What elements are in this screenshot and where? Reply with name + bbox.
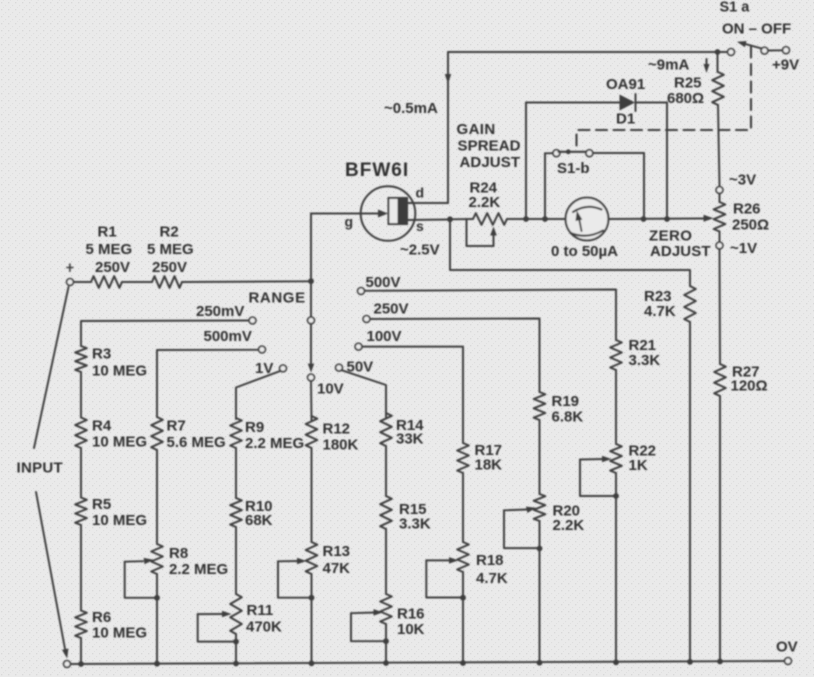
svg-text:~0.5mA: ~0.5mA bbox=[384, 100, 438, 117]
svg-text:R4: R4 bbox=[92, 418, 112, 435]
svg-text:250V: 250V bbox=[374, 301, 409, 318]
svg-text:50V: 50V bbox=[347, 359, 374, 376]
svg-text:3.3K: 3.3K bbox=[629, 352, 661, 369]
svg-text:6.8K: 6.8K bbox=[552, 409, 584, 426]
svg-text:R16: R16 bbox=[397, 606, 425, 623]
svg-text:D1: D1 bbox=[616, 111, 635, 128]
svg-text:2.2 MEG: 2.2 MEG bbox=[245, 435, 304, 452]
svg-text:68K: 68K bbox=[245, 512, 273, 529]
svg-text:10 MEG: 10 MEG bbox=[92, 512, 147, 529]
svg-text:OA91: OA91 bbox=[606, 76, 645, 93]
svg-text:250V: 250V bbox=[152, 259, 187, 276]
svg-text:250mV: 250mV bbox=[196, 303, 244, 320]
svg-text:5 MEG: 5 MEG bbox=[86, 241, 133, 258]
svg-text:R18: R18 bbox=[476, 552, 504, 569]
svg-text:R5: R5 bbox=[92, 496, 111, 513]
svg-text:R13: R13 bbox=[323, 543, 351, 560]
svg-text:5 MEG: 5 MEG bbox=[147, 241, 194, 258]
svg-text:R2: R2 bbox=[160, 224, 179, 241]
svg-text:GAIN: GAIN bbox=[457, 121, 496, 138]
svg-text:500mV: 500mV bbox=[204, 328, 252, 345]
svg-text:100V: 100V bbox=[367, 328, 402, 345]
svg-text:R19: R19 bbox=[552, 393, 580, 410]
svg-text:10 MEG: 10 MEG bbox=[92, 625, 147, 642]
svg-text:2.2K: 2.2K bbox=[469, 194, 501, 211]
svg-text:ON – OFF: ON – OFF bbox=[722, 21, 791, 38]
svg-text:S1 a: S1 a bbox=[720, 0, 751, 16]
svg-text:R25: R25 bbox=[674, 75, 702, 92]
svg-text:180K: 180K bbox=[323, 437, 359, 454]
svg-text:R8: R8 bbox=[169, 545, 188, 562]
svg-text:1V: 1V bbox=[255, 360, 273, 377]
svg-text:R26: R26 bbox=[733, 201, 761, 218]
svg-text:ADJUST: ADJUST bbox=[460, 154, 521, 171]
svg-text:R7: R7 bbox=[167, 418, 186, 435]
svg-text:10 MEG: 10 MEG bbox=[92, 434, 147, 451]
svg-text:250Ω: 250Ω bbox=[732, 217, 769, 234]
svg-text:S1-b: S1-b bbox=[557, 160, 590, 177]
svg-text:~2.5V: ~2.5V bbox=[400, 242, 440, 259]
svg-text:~1V: ~1V bbox=[730, 240, 757, 257]
svg-text:33K: 33K bbox=[396, 431, 424, 448]
svg-text:d: d bbox=[416, 185, 425, 201]
svg-text:2.2 MEG: 2.2 MEG bbox=[169, 561, 228, 578]
svg-text:SPREAD: SPREAD bbox=[458, 138, 521, 155]
svg-text:ADJUST: ADJUST bbox=[650, 243, 711, 260]
svg-text:INPUT: INPUT bbox=[17, 460, 64, 477]
svg-text:680Ω: 680Ω bbox=[667, 90, 704, 107]
svg-text:~3V: ~3V bbox=[729, 172, 756, 189]
svg-text:R9: R9 bbox=[245, 419, 264, 436]
svg-text:3.3K: 3.3K bbox=[399, 516, 431, 533]
svg-text:18K: 18K bbox=[475, 457, 503, 474]
svg-text:500V: 500V bbox=[366, 274, 401, 291]
svg-text:~9mA: ~9mA bbox=[648, 57, 689, 74]
svg-text:R12: R12 bbox=[323, 421, 351, 438]
svg-text:+9V: +9V bbox=[772, 57, 799, 74]
svg-text:s: s bbox=[416, 218, 424, 234]
svg-text:R6: R6 bbox=[92, 609, 111, 626]
svg-text:5.6 MEG: 5.6 MEG bbox=[167, 434, 226, 451]
svg-text:RANGE: RANGE bbox=[249, 290, 306, 307]
svg-text:ZERO: ZERO bbox=[649, 228, 692, 245]
svg-text:2.2K: 2.2K bbox=[553, 517, 585, 534]
svg-text:4.7K: 4.7K bbox=[644, 303, 676, 320]
svg-text:R1: R1 bbox=[98, 224, 117, 241]
svg-text:470K: 470K bbox=[246, 619, 282, 636]
svg-text:R3: R3 bbox=[92, 346, 111, 363]
svg-text:g: g bbox=[345, 214, 354, 230]
svg-text:R11: R11 bbox=[247, 602, 274, 619]
svg-text:10 MEG: 10 MEG bbox=[92, 363, 147, 380]
svg-text:120Ω: 120Ω bbox=[731, 378, 768, 395]
svg-text:10V: 10V bbox=[317, 381, 344, 398]
svg-text:0 to 50µA: 0 to 50µA bbox=[551, 243, 618, 260]
svg-text:250V: 250V bbox=[95, 259, 130, 276]
svg-text:47K: 47K bbox=[323, 560, 351, 577]
svg-text:OV: OV bbox=[776, 639, 798, 656]
svg-text:10K: 10K bbox=[397, 621, 425, 638]
svg-text:BFW6I: BFW6I bbox=[345, 160, 409, 181]
svg-text:4.7K: 4.7K bbox=[476, 570, 508, 587]
svg-text:1K: 1K bbox=[629, 457, 648, 474]
